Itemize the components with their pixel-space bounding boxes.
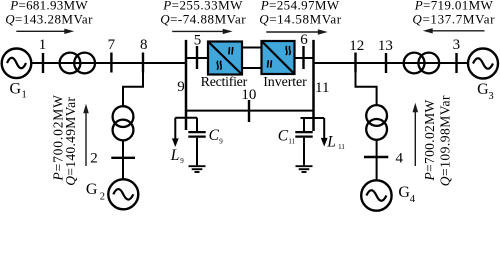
svg-text:7: 7	[108, 37, 116, 53]
svg-text:Q=137.7MVar: Q=137.7MVar	[412, 12, 495, 27]
bus 4	[364, 156, 388, 158]
generator G2	[108, 179, 138, 209]
arrow flow right inverter	[266, 29, 327, 34]
generator G1	[2, 49, 32, 79]
wire bus8 down jog to T2	[123, 63, 143, 107]
bus 12	[354, 53, 356, 73]
capacitor C11	[295, 118, 312, 165]
wire inverter to bus11	[295, 57, 314, 59]
ground under C11	[296, 166, 313, 172]
arrow flow right rectifier	[172, 29, 232, 34]
bus 9 busbar	[185, 40, 188, 130]
wire dc link bottom	[242, 67, 262, 69]
transformer T3	[404, 53, 439, 74]
arrow up G2	[83, 104, 89, 166]
svg-text:1: 1	[39, 37, 47, 53]
wire load cross bus11	[301, 117, 325, 119]
inverter U2	[262, 41, 295, 74]
transformer T4	[366, 105, 387, 140]
bus 13	[385, 53, 387, 73]
svg-text:8: 8	[140, 37, 148, 53]
svg-text:Q=109.98MVar: Q=109.98MVar	[437, 95, 452, 186]
bus 1	[42, 53, 44, 73]
load L11 arrow	[321, 118, 328, 147]
svg-text:Q=143.28MVar: Q=143.28MVar	[5, 12, 93, 27]
arrow up G4	[413, 103, 419, 166]
svg-text:2: 2	[90, 151, 98, 167]
label P/Q flow rectifier	[160, 0, 246, 27]
bus 7	[110, 53, 112, 73]
label P/Q flow inverter	[259, 0, 342, 27]
bus 11 busbar	[312, 40, 315, 131]
svg-text:3: 3	[453, 37, 461, 53]
wire dc link top	[242, 47, 262, 49]
rectifier U1	[208, 42, 242, 75]
svg-text:9: 9	[177, 79, 185, 95]
svg-text:13: 13	[378, 38, 393, 54]
transformer T1	[60, 53, 95, 74]
svg-text:Inverter: Inverter	[263, 75, 307, 90]
svg-text:5: 5	[194, 33, 202, 49]
svg-text:P=255.33MW: P=255.33MW	[162, 0, 243, 12]
arrow flow left G3	[423, 28, 485, 33]
svg-text:Q=140.49MVar: Q=140.49MVar	[63, 97, 78, 186]
arrow flow right G1	[16, 29, 74, 34]
svg-text:P=254.97MW: P=254.97MW	[260, 0, 340, 12]
svg-text:P=719.01MW: P=719.01MW	[414, 0, 494, 12]
bus 2	[111, 157, 135, 159]
load L9 arrow	[172, 118, 179, 147]
capacitor C9	[188, 118, 205, 166]
wire load cross bus9	[175, 117, 197, 119]
svg-text:Q=-74.88MVar: Q=-74.88MVar	[160, 12, 246, 27]
svg-text:10: 10	[241, 87, 256, 103]
wire bus12 down jog to T4	[356, 63, 377, 105]
bus 5	[196, 46, 198, 69]
svg-text:6: 6	[300, 32, 308, 48]
label P/Q flow G3 line	[412, 0, 495, 27]
wire T2 to G2	[122, 140, 124, 179]
svg-text:4: 4	[396, 151, 404, 167]
bus 10	[248, 100, 250, 122]
ground under C9	[189, 166, 206, 172]
bus 6	[302, 46, 304, 69]
bus 8	[142, 53, 144, 73]
svg-text:P=681.93MW: P=681.93MW	[9, 0, 88, 12]
bus 3	[455, 53, 457, 73]
wire G1 to bus9	[31, 62, 186, 64]
wire T4 to G4	[376, 140, 378, 180]
svg-text:12: 12	[349, 38, 364, 54]
wire bus11 to G3	[314, 62, 469, 64]
svg-text:P=700.02MW: P=700.02MW	[422, 99, 437, 181]
generator G3	[468, 49, 498, 79]
wire ac tie line bus9 to bus11	[186, 110, 314, 112]
svg-text:Q=14.58MVar: Q=14.58MVar	[259, 12, 342, 27]
wire bus9 to rectifier	[186, 57, 208, 59]
svg-text:11: 11	[315, 80, 329, 96]
generator G4	[361, 180, 391, 210]
label P/Q flow G1 line	[5, 0, 93, 27]
transformer T2	[113, 106, 134, 140]
